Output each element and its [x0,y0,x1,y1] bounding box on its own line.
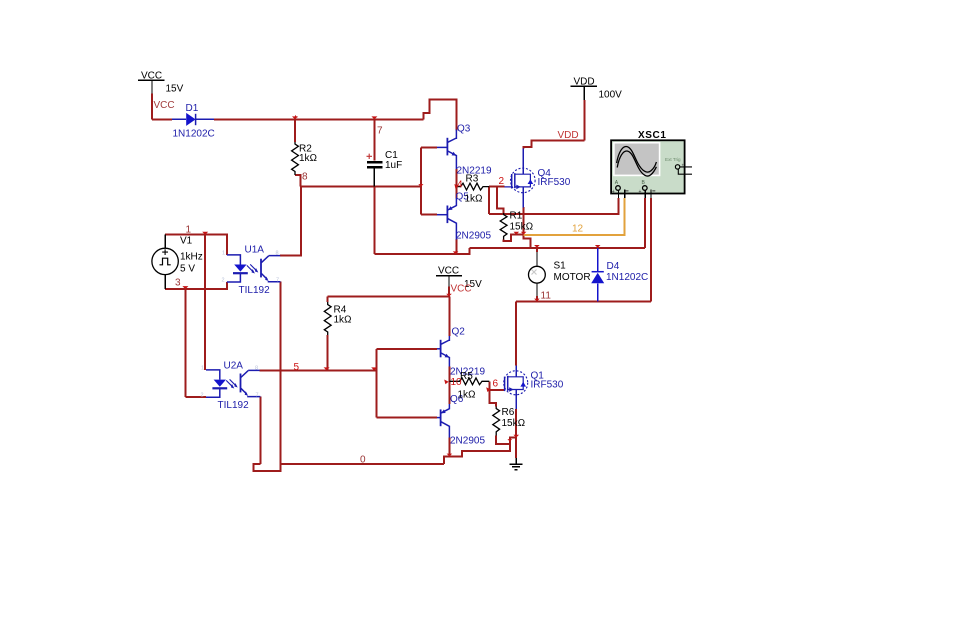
wire Q3 emitter to node 4 [455,169,457,187]
svg-text:VCC: VCC [438,266,459,277]
svg-text:R5: R5 [460,371,473,382]
svg-text:D4: D4 [607,261,620,272]
svg-text:100V: 100V [599,90,623,101]
wire scope B- riser [650,198,652,302]
svg-text:3: 3 [175,278,181,289]
svg-text:Q3: Q3 [457,124,471,135]
wire R4 top from VCC2 [328,296,449,298]
svg-text:10: 10 [451,377,463,388]
transistor Q5 2N2905 [437,198,456,240]
svg-text:4: 4 [457,180,463,191]
svg-text:R3: R3 [466,174,479,185]
svg-text:1kΩ: 1kΩ [299,153,317,164]
svg-text:1kΩ: 1kΩ [334,315,352,326]
wire Q1 source down [515,409,517,438]
svg-text:U2A: U2A [224,361,244,372]
svg-text:1kHz: 1kHz [180,252,203,263]
wire U1A emitter riser to node 0 [279,282,281,464]
svg-text:R1: R1 [510,211,523,222]
source V1 [152,235,178,289]
wire Q4 source down [522,207,524,235]
diode D1 [172,113,214,126]
svg-text:R6: R6 [502,407,515,418]
wire C1 bottom riser to output rail [373,187,375,255]
transistor Q6 2N2905 [437,404,449,438]
svg-text:15kΩ: 15kΩ [510,222,534,233]
svg-text:IRF530: IRF530 [531,380,564,391]
wire VCC2 to Q2 collector [448,297,450,337]
wire node 8 horizontal [301,186,421,188]
svg-text:1: 1 [186,225,192,236]
svg-text:S1: S1 [554,261,567,272]
optocoupler U2A TIL192 [206,370,260,397]
motor S1 [529,252,546,296]
svg-text:TIL192: TIL192 [218,400,250,411]
power VCC1 symbol [138,80,165,93]
wire Q2 Q6 base box [376,349,437,418]
wire VDD to Q4 drain [523,141,584,149]
wire Q1 source to ground [515,438,517,458]
wire node 2 branch down to scope A wire [488,187,490,214]
mosfet Q4 IRF530 [504,149,535,208]
svg-text:V1: V1 [180,236,193,247]
svg-text:7: 7 [256,393,259,399]
resistor R1 [500,213,507,240]
wire node 3 riser to U2A pin2 [184,289,186,397]
wire node 6 R5 to Q1 gate [489,381,504,390]
wire scope B+ riser [644,198,646,248]
svg-text:Q2: Q2 [452,327,466,338]
wire Q5 emitter upper [455,187,457,199]
wire R2 bottom jog to node 8 [295,175,301,187]
svg-text:5 V: 5 V [180,264,195,275]
svg-text:MOTOR: MOTOR [554,272,591,283]
mosfet Q1 IRF530 [504,366,528,410]
svg-text:1kΩ: 1kΩ [465,194,483,205]
wire VCC1 to D1 anode [152,118,172,120]
svg-text:8: 8 [276,251,279,257]
wire V1 bottom to U1A pin2 [165,282,227,289]
diode D4 [591,248,604,302]
wire node 6 branch to R6 [489,390,496,407]
wire node 0 rail [280,463,444,465]
svg-text:12: 12 [572,224,584,235]
svg-text:IRF530: IRF530 [538,177,571,188]
wire C1 top lead [373,119,375,160]
svg-text:7: 7 [276,278,279,284]
wire R1 top branch [497,187,504,213]
wire U1A collector to node 8 [280,187,301,256]
svg-text:11: 11 [541,291,552,302]
capacitor C1 plus sign [367,154,373,159]
svg-text:1kΩ: 1kΩ [458,390,476,401]
resistor R2 [292,142,299,175]
svg-text:2: 2 [222,278,225,284]
junction markers [182,115,600,457]
resistor R5 [449,378,489,385]
wire D1 cathode to top rail [214,118,424,120]
wire output rail Q5 collector [374,248,469,254]
svg-text:Ext Trig: Ext Trig [665,157,681,162]
svg-text:1: 1 [222,251,225,257]
wire V1 top to U1A pin1 [165,235,227,255]
wire top rail staircase to Q3 collector [424,100,457,131]
wire node 1 riser to U2A pin1 [204,235,206,370]
optocoupler U1A TIL192 [227,255,281,282]
wire U2A pin2 lead red [185,396,206,398]
svg-text:8: 8 [302,172,308,183]
wire U2A emitter riser [259,397,261,465]
wire motor top rail [470,247,646,249]
wire node 5 horizontal [260,369,377,371]
wire Q5 collector to output rail [455,239,457,254]
wire Q2 emitter to node 10 [448,367,450,382]
svg-text:VCC: VCC [451,284,472,295]
svg-text:0: 0 [360,455,366,466]
resistor R3 [456,183,489,190]
svg-text:1N1202C: 1N1202C [606,272,648,283]
svg-text:2N2905: 2N2905 [456,231,491,242]
svg-text:TIL192: TIL192 [239,285,271,296]
svg-text:6: 6 [493,379,499,390]
wire node 0 bottom loop [254,464,281,471]
svg-text:5: 5 [294,362,300,373]
svg-text:+: + [612,189,615,195]
svg-text:1: 1 [201,366,204,372]
wire node 0 staircase to ground [444,444,510,464]
capacitor C1 [367,162,383,187]
wire node 2 R3 to Q4 gate [489,186,504,188]
wire R1 bottom jog [504,235,524,241]
svg-text:+: + [682,163,685,168]
svg-text:VCC: VCC [154,100,175,111]
wire R4 bottom lead [327,335,329,370]
svg-text:U1A: U1A [245,245,265,256]
wire motor bottom stub [536,296,538,301]
svg-text:2N2905: 2N2905 [450,436,485,447]
svg-text:D1: D1 [186,103,199,114]
wire VCC1 stem red [151,94,153,120]
wire Q3 Q5 base box [421,147,437,214]
power VDD symbol [571,86,597,100]
svg-text:2: 2 [499,176,505,187]
wire Q1 drain riser [515,301,517,365]
svg-text:8: 8 [255,366,258,372]
svg-text:15V: 15V [166,84,184,95]
svg-text:VDD: VDD [558,130,579,141]
wire R4 top lead [327,297,329,303]
wire R2 top lead [294,119,296,142]
transistor Q2 2N2219 [437,336,449,367]
wire scope A+ horizontal [489,198,618,214]
svg-text:15kΩ: 15kΩ [502,418,526,429]
power VCC2 symbol [436,276,462,287]
resistor R4 [324,302,331,335]
ground symbol [509,458,522,470]
transistor Q3 2N2219 [437,130,456,170]
svg-text:VDD: VDD [574,77,595,88]
wire node 12 orange [524,198,625,235]
svg-text:1N1202C: 1N1202C [173,129,215,140]
wire motor bottom rail [516,300,651,302]
svg-text:+: + [639,189,642,195]
resistor R6 [493,407,500,436]
wire VCC2 stem red [448,287,450,297]
svg-text:2: 2 [201,393,204,399]
oscilloscope XSC1 [611,140,692,198]
svg-text:1uF: 1uF [385,160,402,171]
wire Q6 emitter to node 10 [448,381,450,404]
wire Q6 collector down [448,438,450,457]
svg-text:XSC1: XSC1 [638,130,667,141]
wire R6 bottom jog [496,436,516,445]
svg-text:VCC: VCC [141,71,162,82]
wire VDD stem red [583,100,585,140]
wire motor top stub [536,248,538,252]
svg-text:7: 7 [377,126,383,137]
wire Q4 source staircase to motor rail [524,235,531,248]
